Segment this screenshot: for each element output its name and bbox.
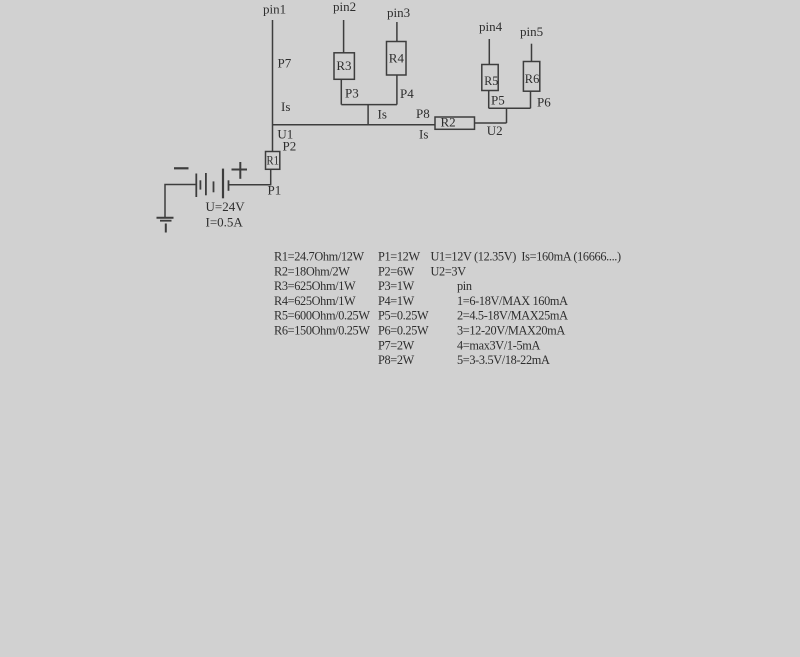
wire battery negative to ground [165, 185, 196, 218]
wire P3-P4 junction horizontal [341, 104, 397, 106]
wire pin4 to R5 [488, 39, 490, 65]
label Is center [378, 107, 387, 122]
resistor R4 [387, 42, 407, 76]
svg-text:I=0.5A: I=0.5A [206, 215, 244, 230]
svg-text:4=max3V/1-5mA: 4=max3V/1-5mA [457, 338, 540, 352]
label U=24V [206, 199, 246, 214]
svg-text:P7=2W: P7=2W [378, 338, 415, 352]
label P1 [268, 183, 282, 198]
svg-text:U=24V: U=24V [206, 199, 246, 214]
svg-text:R5: R5 [484, 73, 498, 88]
svg-text:P3=1W: P3=1W [378, 279, 415, 293]
wire battery positive terminal to P1 [229, 184, 271, 186]
ground [157, 218, 174, 233]
label P8 [416, 106, 430, 121]
node pin4 [479, 19, 503, 34]
label P3 [345, 86, 359, 101]
svg-text:R2: R2 [441, 114, 456, 129]
svg-text:P2=6W: P2=6W [378, 264, 415, 278]
svg-text:R3: R3 [336, 58, 351, 73]
svg-text:R6=150Ohm/0.25W: R6=150Ohm/0.25W [274, 324, 370, 338]
svg-text:P4: P4 [400, 86, 414, 101]
svg-text:Is: Is [419, 127, 428, 142]
svg-text:P8: P8 [416, 106, 430, 121]
wire P5-P6 junction horizontal [489, 107, 531, 109]
svg-text:P2: P2 [283, 139, 297, 154]
svg-text:P5=0.25W: P5=0.25W [378, 309, 429, 323]
svg-text:Is: Is [378, 107, 387, 122]
svg-text:U2: U2 [487, 123, 503, 138]
svg-text:R1=24.7Ohm/12W: R1=24.7Ohm/12W [274, 250, 365, 264]
label P4 [400, 86, 414, 101]
wire R1 bottom to battery [270, 169, 272, 184]
svg-text:P8=2W: P8=2W [378, 353, 415, 367]
wire pin2 to R3 [343, 20, 345, 53]
label P5 [491, 93, 505, 108]
node U1 label [277, 127, 293, 142]
svg-text:P6: P6 [537, 95, 551, 110]
battery minus sign [174, 167, 189, 169]
label Is right [419, 127, 428, 142]
label U2 [487, 123, 503, 138]
resistor R1 [266, 152, 280, 170]
svg-text:P1=12W: P1=12W [378, 250, 420, 264]
svg-text:R3=625Ohm/1W: R3=625Ohm/1W [274, 279, 356, 293]
wire pin1 vertical P7 branch [272, 20, 274, 152]
label I=0.5A [206, 215, 244, 230]
resistor R3 [334, 53, 354, 80]
svg-text:3=12-20V/MAX20mA: 3=12-20V/MAX20mA [457, 324, 565, 338]
resistor R6 [523, 62, 539, 92]
svg-text:R4=625Ohm/1W: R4=625Ohm/1W [274, 294, 356, 308]
svg-text:2=4.5-18V/MAX25mA: 2=4.5-18V/MAX25mA [457, 309, 568, 323]
svg-text:5=3-3.5V/18-22mA: 5=3-3.5V/18-22mA [457, 353, 550, 367]
svg-text:pin1: pin1 [263, 2, 286, 17]
node pin1 [263, 2, 286, 17]
svg-text:R1: R1 [267, 153, 280, 168]
node pin3 [387, 5, 410, 20]
wire R5 bottom to P5 junction [488, 91, 490, 109]
wire R3 bottom to P3 junction [340, 79, 342, 104]
wire pin3 to R4 [396, 22, 398, 42]
wire R6 bottom to P6 junction [530, 91, 532, 108]
label Is left branch [281, 99, 290, 114]
svg-text:pin3: pin3 [387, 5, 410, 20]
resistor R2 [435, 114, 475, 129]
label P7 [278, 56, 292, 71]
label P2 [283, 139, 297, 154]
svg-text:P4=1W: P4=1W [378, 294, 415, 308]
wire R2 right to U2 junction [475, 122, 507, 124]
svg-text:U1=12V (12.35V) Is=160mA (166: U1=12V (12.35V) Is=160mA (16666....) [431, 250, 622, 264]
svg-text:pin5: pin5 [520, 24, 543, 39]
svg-text:P5: P5 [491, 93, 505, 108]
wire bus U1 horizontal [273, 124, 436, 126]
node pin2 [333, 0, 356, 14]
battery plus sign [232, 162, 248, 179]
svg-text:P6=0.25W: P6=0.25W [378, 324, 429, 338]
svg-text:Is: Is [281, 99, 290, 114]
label P6 [537, 95, 551, 110]
wire U2 junction vertical [506, 108, 508, 123]
svg-text:pin: pin [457, 279, 472, 293]
svg-text:R4: R4 [389, 50, 405, 65]
svg-text:pin4: pin4 [479, 19, 503, 34]
svg-text:pin2: pin2 [333, 0, 356, 14]
svg-text:R6: R6 [525, 71, 540, 86]
svg-text:U2=3V: U2=3V [431, 264, 467, 278]
svg-text:R2=18Ohm/2W: R2=18Ohm/2W [274, 264, 350, 278]
wire pin5 to R6 [531, 44, 533, 62]
wire R4 bottom to P4 junction [396, 75, 398, 105]
node pin5 [520, 24, 543, 39]
resistor R5 [482, 65, 499, 91]
svg-text:R5=600Ohm/0.25W: R5=600Ohm/0.25W [274, 309, 370, 323]
svg-text:1=6-18V/MAX 160mA: 1=6-18V/MAX 160mA [457, 294, 568, 308]
battery B1 plates [196, 169, 228, 199]
wire junction down to bus [367, 105, 369, 126]
svg-text:P7: P7 [278, 56, 292, 71]
svg-text:P3: P3 [345, 86, 359, 101]
